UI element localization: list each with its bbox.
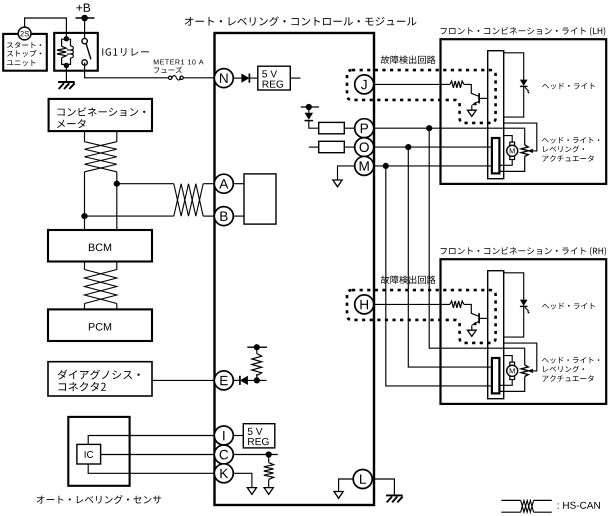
box combination meter	[49, 99, 152, 131]
diode at E pointing left	[240, 376, 248, 385]
transistor collector	[479, 317, 488, 319]
box start-stop unit	[3, 34, 47, 71]
wire C pulldown lead	[268, 455, 270, 463]
wire twist to PCM left	[84, 304, 86, 310]
wire CAN-L branch to twist	[85, 215, 174, 217]
wire resistor to transistor base	[464, 304, 479, 316]
twisted pair meter to BCM	[85, 142, 117, 172]
node P branch dot	[426, 125, 432, 131]
resistor potentiometer LH	[524, 139, 526, 145]
label front combination light RH	[441, 247, 607, 256]
relay coil bottom junction dot	[64, 63, 69, 68]
wire 5V REG output stub	[290, 77, 300, 79]
wire pin M to LH actuator connector	[374, 165, 492, 167]
wire pin O to LH actuator connector	[374, 146, 492, 148]
ground arrow below M	[333, 180, 342, 187]
node CAN-L branch dot	[81, 213, 87, 219]
label actuator RH line1	[542, 357, 599, 364]
wire P branch down to RH	[429, 128, 525, 359]
wire pin P to LH potentiometer	[374, 128, 525, 139]
wire twist to pin A	[203, 183, 214, 185]
wire diagnosis connector to pin E	[152, 379, 214, 381]
relay switch contact bottom	[82, 60, 87, 65]
ground chassis below L	[386, 495, 403, 502]
wire meter left CAN down	[84, 131, 86, 142]
box PCM	[48, 309, 152, 341]
wire potentiometer wiper RH	[504, 343, 537, 371]
pin K	[214, 464, 233, 483]
label start-stop unit line2	[7, 50, 41, 57]
wire relay coil to ground	[65, 66, 67, 82]
label actuator RH line2	[543, 366, 584, 373]
wire headlight feed RH	[504, 273, 524, 300]
box BCM	[48, 230, 152, 262]
pin I	[214, 426, 233, 445]
wire diode to resistor P	[309, 121, 319, 129]
label auto-leveling sensor	[37, 495, 162, 504]
LED headlight RH	[520, 300, 530, 314]
pin H	[355, 295, 374, 314]
pin M	[355, 156, 374, 175]
wire meter right CAN down	[116, 131, 118, 142]
box internal CAN block	[244, 174, 276, 224]
resistor potentiometer RH	[524, 359, 526, 365]
wire resistor P to pin P	[344, 127, 354, 129]
wire resistor to transistor base	[464, 84, 479, 96]
twisted pair to module A B	[174, 184, 203, 216]
wire C pulldown to ground arrow	[268, 479, 270, 487]
wire sensor IC to pin I	[88, 436, 214, 445]
label actuator LH line3	[542, 155, 593, 162]
diode after N	[241, 74, 249, 83]
wire pin A to internal block	[233, 183, 244, 185]
connector strip LH light	[488, 51, 504, 179]
connector actuator LH	[492, 138, 500, 173]
label diagnosis connector line2	[59, 382, 106, 391]
label IC	[85, 451, 94, 458]
pin C	[214, 445, 233, 464]
ground arrow below C resistor	[264, 488, 273, 495]
wire diode to 5V REG	[250, 77, 258, 79]
resistor pullup at E	[252, 354, 262, 376]
wire relay switch to fuse	[85, 63, 169, 78]
wire O branch down to RH	[408, 147, 492, 367]
relay switch blade	[86, 44, 91, 60]
resistor block P row	[319, 122, 345, 133]
wire headlight return LH	[504, 86, 524, 117]
pin J	[355, 75, 374, 94]
ground arrow transistor emitter	[467, 110, 476, 116]
label BCM	[89, 243, 111, 251]
wire +B to relay switch	[84, 18, 86, 41]
box 5V regulator lower	[243, 424, 274, 448]
label actuator LH line1	[542, 137, 599, 144]
power +B label	[76, 4, 90, 12]
box auto-leveling control module	[215, 33, 375, 505]
box diagnosis connector 2	[48, 362, 152, 396]
label combination meter line1	[57, 107, 145, 116]
label headlight LH	[542, 83, 595, 90]
label auto-leveling control module	[185, 16, 417, 26]
ground arrow below K	[247, 488, 256, 495]
motor leveling actuator RH	[507, 362, 518, 379]
label PCM	[89, 323, 111, 331]
wire pin C junction	[234, 454, 278, 456]
wire start-stop unit 2S to relay coil	[25, 18, 67, 39]
wire CAN-H branch to twist	[117, 183, 174, 185]
ground arrow transistor emitter	[467, 330, 476, 336]
wire pin M to ground arrow	[338, 166, 355, 180]
rail above internal diode	[301, 106, 319, 108]
wire BCM to twist left	[84, 262, 86, 270]
label actuator LH line2	[543, 146, 584, 153]
label failure detection circuit	[381, 55, 436, 64]
wire motor return LH	[499, 160, 512, 166]
dashed box failure detection circuit	[347, 70, 496, 123]
label fuse METER1 10 A	[154, 59, 204, 64]
ground arrow below L left	[334, 492, 343, 499]
node E pullup bottom dot	[254, 377, 260, 383]
label failure detection circuit	[381, 275, 436, 284]
wire fuse to pin N	[183, 77, 214, 79]
wire pullup resistor top lead	[256, 347, 258, 353]
node rail junction dot	[306, 104, 312, 110]
wire CAN-L down to BCM	[84, 172, 86, 230]
wire stub resistor O row	[309, 146, 319, 148]
resistor transistor base	[450, 301, 464, 308]
connector actuator RH	[492, 358, 500, 393]
resistor block O row	[319, 141, 345, 152]
ground chassis below relay	[58, 82, 75, 89]
wire pin L to chassis ground	[372, 479, 394, 495]
wire pullup resistor bottom lead	[256, 374, 258, 380]
wire pin L to ground arrow	[339, 479, 354, 492]
wire pin E to diode	[233, 379, 240, 381]
label diagnosis connector line1	[57, 370, 139, 380]
transistor base bar	[478, 93, 480, 103]
wire pin B to internal block	[233, 215, 244, 217]
wire twist to PCM right	[116, 304, 118, 310]
box auto-leveling sensor	[68, 417, 129, 486]
wire sensor IC to pin K	[88, 464, 214, 473]
box sensor IC	[77, 444, 101, 464]
relay IG1 box	[54, 33, 98, 71]
connector circle 2S	[18, 27, 31, 40]
relay coil top junction dot	[64, 36, 69, 41]
fuse METER1 symbol	[169, 76, 184, 80]
transistor base bar	[478, 313, 480, 323]
pin A	[214, 174, 233, 193]
wire headlight feed LH	[504, 53, 524, 80]
label actuator RH line3	[542, 375, 593, 382]
label start-stop unit line3	[7, 60, 36, 66]
label front combination light LH	[441, 27, 606, 36]
node M branch dot	[383, 163, 389, 169]
wire CAN-H down to BCM	[116, 172, 118, 230]
label start-stop unit line1	[7, 42, 41, 49]
wire actuator motor feed LH	[504, 136, 513, 143]
wire twist to pin B	[203, 215, 214, 217]
label 5V REG upper	[262, 70, 277, 77]
label IG1 relay	[102, 48, 149, 56]
wire diode E to pullup	[248, 379, 267, 381]
wire rail to diode	[308, 107, 310, 113]
label 5V REG lower	[248, 428, 263, 435]
wire potentiometer wiper LH	[504, 123, 537, 151]
node E pullup top dot	[254, 344, 260, 350]
connector strip RH light	[488, 271, 504, 399]
twisted pair BCM to PCM	[85, 270, 117, 304]
label combination meter line2	[57, 119, 86, 128]
dashed box failure detection circuit	[347, 290, 496, 343]
wire sensor IC to pin C	[101, 454, 215, 456]
wire pin I to 5V REG lower	[234, 435, 244, 437]
wire pin K to ground arrow	[234, 473, 252, 487]
resistor pulldown at C	[264, 463, 274, 480]
wire actuator motor feed RH	[504, 356, 513, 363]
LED headlight LH	[520, 80, 530, 94]
box front combination light LH	[441, 39, 607, 184]
box 5V regulator upper	[258, 66, 291, 90]
relay switch contact top	[82, 38, 87, 43]
diode down to P resistor	[305, 113, 314, 121]
pin P	[355, 119, 374, 138]
node C junction dot	[266, 451, 272, 457]
wire BCM to twist right	[116, 262, 118, 270]
legend HS-CAN twisted pair symbol	[501, 499, 520, 501]
node +B junction dot	[81, 15, 88, 22]
resistor transistor base	[450, 81, 464, 88]
wire motor return RH	[499, 380, 512, 386]
wire pin to base resistor	[374, 303, 450, 305]
transistor emitter with arrow	[474, 321, 479, 324]
pin B	[214, 207, 233, 226]
wire resistor O to pin O	[344, 146, 354, 148]
rail at E pullup top	[247, 346, 267, 348]
wire M branch down to RH	[386, 166, 492, 386]
transistor collector	[479, 97, 488, 99]
box front combination light RH	[441, 259, 607, 404]
pin E	[214, 371, 233, 390]
pin L	[353, 470, 372, 489]
power +B terminal bar	[76, 17, 95, 19]
motor leveling actuator LH	[507, 142, 518, 159]
wire headlight return RH	[504, 306, 524, 337]
node O branch dot	[405, 144, 411, 150]
transistor emitter with arrow	[474, 101, 479, 104]
wire pin to base resistor	[374, 83, 450, 85]
label headlight RH	[542, 303, 595, 310]
pin N	[214, 69, 233, 88]
wire pin N to diode	[233, 77, 241, 79]
label HS-CAN	[558, 502, 600, 509]
label fuse type	[154, 67, 182, 74]
pin O	[355, 138, 374, 157]
relay coil outline with resistor and inductor	[57, 39, 73, 64]
node CAN-H branch dot	[114, 181, 120, 187]
